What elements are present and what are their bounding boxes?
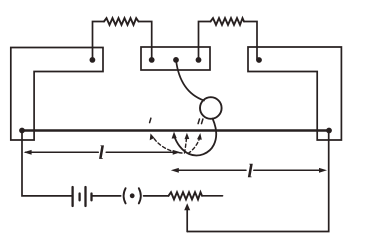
arrowhead right swing — [197, 133, 202, 140]
dashed jockey swing arc right — [188, 138, 200, 154]
key K: right bracket — [139, 188, 141, 203]
rheostat wiper arrowhead — [184, 203, 190, 210]
dimension left arrowhead west — [24, 150, 32, 155]
node B: middle block left dot — [149, 57, 155, 63]
copper strip middle (gap block) — [141, 47, 210, 70]
tick marks '' (trial point right) — [198, 119, 203, 124]
rheostat stub wire — [202, 195, 223, 197]
node F: bridge wire left junction dot — [19, 128, 25, 134]
dimension line left l — [26, 151, 175, 153]
battery plate short 2 — [90, 194, 92, 201]
node E: terminal dot on right strip — [256, 57, 262, 63]
copper strip right (L-shaped) — [248, 47, 341, 140]
wire: left end down to battery row — [22, 131, 72, 196]
label l (left) — [99, 145, 104, 158]
battery plate long 1 — [71, 187, 73, 206]
arrowhead middle swing — [185, 133, 190, 139]
battery plate long 2 — [84, 187, 86, 206]
resistor R1 zigzag — [104, 18, 139, 25]
wire: key to rheostat — [144, 195, 169, 197]
dimension left arrowhead east — [173, 150, 181, 155]
key K: plug dot — [130, 193, 135, 198]
bridge wire — [22, 129, 329, 131]
resistor R2 zigzag — [211, 18, 245, 25]
galvanometer G — [200, 97, 222, 119]
copper strip left (L-shaped) — [11, 48, 103, 141]
tick mark ' (trial point left) — [150, 118, 151, 122]
node C: middle block centre dot (galvanometer tap) — [173, 57, 179, 63]
dimension right arrowhead west — [171, 168, 179, 173]
key K: left bracket — [124, 188, 126, 203]
node G: bridge wire right junction dot — [326, 128, 332, 134]
wire: battery to key — [93, 195, 121, 197]
arrowhead left swing — [150, 133, 155, 140]
wire: galvanometer lead from centre dot — [176, 60, 204, 101]
wire: right end down and along bottom to wiper — [187, 131, 329, 232]
dimension right arrowhead east — [319, 168, 327, 173]
node D: middle block right dot — [196, 57, 202, 63]
dashed jockey swing arc left — [154, 138, 182, 153]
dashed jockey swing arc middle — [185, 137, 187, 153]
node A: terminal dot on left strip — [90, 57, 96, 63]
rheostat Rh zigzag — [169, 192, 203, 199]
resistor R2 loop wires — [199, 22, 258, 60]
dimension line right l — [177, 169, 321, 171]
jockey contact arrowhead — [172, 132, 177, 139]
rheostat wiper arrow stem — [186, 209, 188, 232]
resistor R1 loop wires — [93, 22, 152, 60]
jockey curved arm from galvanometer to wire — [174, 119, 216, 156]
battery plate short 1 — [78, 194, 80, 201]
label l (right) — [248, 164, 253, 177]
